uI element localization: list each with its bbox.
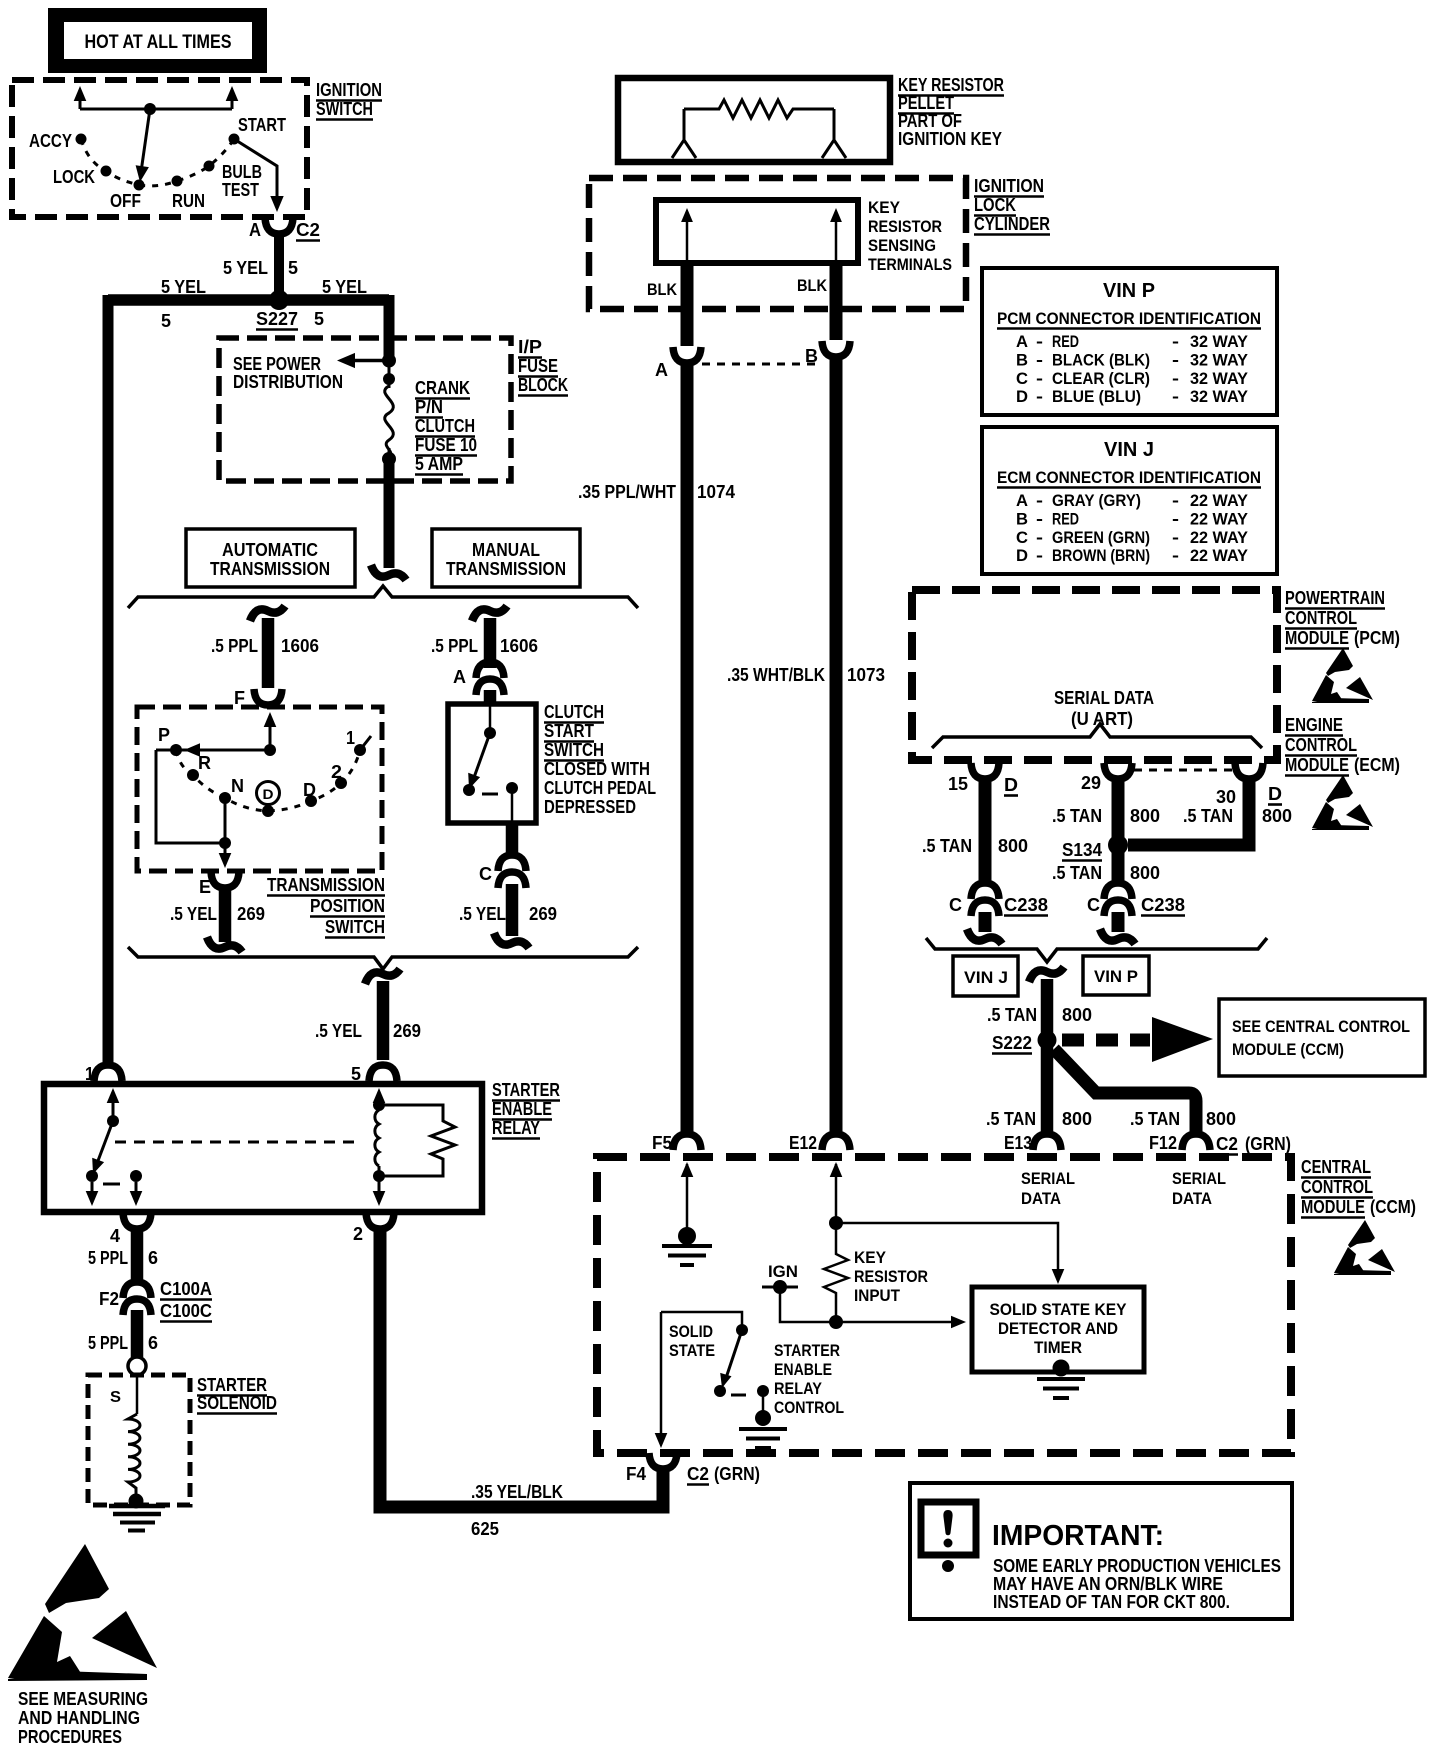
svg-text:6: 6 — [148, 1333, 158, 1353]
svg-text:DETECTOR AND: DETECTOR AND — [998, 1319, 1118, 1338]
svg-text:PELLET: PELLET — [898, 93, 954, 113]
ESD symbol ECM — [1312, 775, 1373, 830]
fuse CRANK P/N CLUTCH FUSE 10 5 AMP — [388, 360, 391, 388]
svg-text:STATE: STATE — [669, 1341, 715, 1360]
svg-text:F5: F5 — [652, 1133, 672, 1153]
E12 key resistor input — [830, 1162, 843, 1177]
wire .35 YEL/BLK 625 — [380, 1231, 663, 1507]
svg-text:29: 29 — [1081, 773, 1101, 793]
svg-text:.35 WHT/BLK: .35 WHT/BLK — [727, 665, 825, 685]
svg-text:PCM CONNECTOR IDENTIFICATION: PCM CONNECTOR IDENTIFICATION — [997, 309, 1261, 328]
svg-text:MANUAL: MANUAL — [472, 540, 540, 560]
svg-text:1073: 1073 — [847, 665, 885, 685]
powertrain control module box — [912, 590, 1277, 760]
svg-text:CENTRAL: CENTRAL — [1301, 1157, 1371, 1177]
svg-text:A: A — [655, 360, 668, 380]
svg-text:-: - — [1036, 369, 1043, 388]
svg-text:C: C — [1016, 369, 1028, 388]
switch ground — [762, 1391, 765, 1415]
ignition switch wiper node — [144, 103, 156, 115]
svg-text:-: - — [1172, 350, 1179, 369]
svg-text:5 PPL: 5 PPL — [88, 1333, 128, 1353]
svg-text:DATA: DATA — [1021, 1189, 1061, 1208]
svg-text:S134: S134 — [1062, 840, 1102, 860]
svg-text:F4: F4 — [626, 1464, 646, 1484]
svg-text:-: - — [1172, 387, 1179, 406]
wire .5 YEL 269 to relay pin 5 — [365, 969, 400, 984]
svg-text:POWERTRAIN: POWERTRAIN — [1285, 588, 1385, 608]
svg-text:S222: S222 — [992, 1033, 1032, 1053]
svg-text:C: C — [1016, 528, 1028, 547]
svg-text:SEE CENTRAL CONTROL: SEE CENTRAL CONTROL — [1232, 1017, 1410, 1036]
relay switch — [112, 1096, 115, 1121]
svg-text:SWITCH: SWITCH — [325, 917, 385, 937]
svg-text:E13: E13 — [1004, 1133, 1032, 1153]
svg-text:(GRN): (GRN) — [1245, 1134, 1291, 1154]
svg-text:B: B — [1016, 350, 1028, 369]
important note box — [910, 1483, 1292, 1619]
svg-text:22 WAY: 22 WAY — [1190, 509, 1249, 528]
svg-text:DATA: DATA — [1172, 1189, 1212, 1208]
F5 internal ground — [681, 1162, 694, 1177]
key resistor pellet box — [618, 78, 890, 162]
starter solenoid ground — [129, 1494, 144, 1509]
svg-text:269: 269 — [529, 904, 557, 924]
svg-text:ACCY: ACCY — [29, 131, 72, 151]
svg-text:KEY: KEY — [854, 1248, 887, 1267]
svg-text:BULB: BULB — [222, 162, 262, 182]
svg-text:PART OF: PART OF — [898, 111, 962, 131]
svg-text:D: D — [1016, 546, 1028, 565]
svg-text:C2: C2 — [687, 1464, 709, 1484]
svg-text:FUSE 10: FUSE 10 — [415, 435, 477, 455]
svg-text:POSITION: POSITION — [310, 896, 385, 916]
power feed box HOT AT ALL TIMES — [48, 8, 267, 73]
svg-text:269: 269 — [393, 1021, 421, 1041]
svg-text:.35 YEL/BLK: .35 YEL/BLK — [471, 1482, 563, 1502]
svg-text:P: P — [158, 725, 170, 745]
svg-text:GREEN (GRN): GREEN (GRN) — [1052, 528, 1150, 547]
svg-text:MODULE (CCM): MODULE (CCM) — [1232, 1040, 1344, 1059]
warning icon — [921, 1502, 976, 1555]
svg-text:PROCEDURES: PROCEDURES — [18, 1727, 122, 1744]
pin F entry arrow — [269, 716, 272, 750]
svg-text:AND HANDLING: AND HANDLING — [18, 1708, 140, 1728]
svg-text:D: D — [1016, 387, 1028, 406]
svg-text:22 WAY: 22 WAY — [1190, 491, 1249, 510]
svg-text:TRANSMISSION: TRANSMISSION — [267, 875, 385, 895]
svg-text:CLUTCH: CLUTCH — [415, 416, 475, 436]
key resistor sensing terminals box — [656, 200, 858, 263]
svg-text:.5 TAN: .5 TAN — [1183, 806, 1233, 826]
svg-text:I/P: I/P — [518, 337, 542, 357]
svg-text:A: A — [1016, 332, 1028, 351]
splice S134 — [1108, 835, 1128, 855]
svg-text:SERIAL: SERIAL — [1172, 1169, 1226, 1188]
svg-text:.5 TAN: .5 TAN — [1130, 1109, 1180, 1129]
svg-text:IGNITION: IGNITION — [974, 176, 1044, 196]
svg-text:15: 15 — [948, 774, 968, 794]
svg-text:.35 PPL/WHT: .35 PPL/WHT — [578, 482, 676, 502]
sensing terminal contacts — [686, 216, 689, 260]
svg-text:625: 625 — [471, 1519, 499, 1539]
central control module box — [597, 1157, 1291, 1453]
svg-text:.5 PPL: .5 PPL — [211, 636, 258, 656]
svg-text:IGN: IGN — [768, 1262, 798, 1281]
svg-text:VIN P: VIN P — [1094, 967, 1138, 986]
switch positions P R N D 2 1 — [170, 744, 182, 756]
wire START to connector C2 — [234, 139, 277, 200]
starter solenoid coil — [136, 1375, 139, 1414]
svg-text:C: C — [479, 864, 492, 884]
svg-text:800: 800 — [1130, 863, 1160, 883]
svg-text:-: - — [1036, 491, 1043, 510]
splice S227 bus wire — [108, 294, 389, 306]
svg-text:32 WAY: 32 WAY — [1190, 350, 1249, 369]
ignition switch box — [12, 80, 307, 217]
svg-text:ENABLE: ENABLE — [492, 1099, 552, 1119]
svg-text:1606: 1606 — [500, 636, 538, 656]
svg-text:800: 800 — [1130, 806, 1160, 826]
svg-text:RESISTOR: RESISTOR — [868, 217, 942, 236]
svg-text:5: 5 — [314, 309, 324, 329]
svg-text:INSTEAD OF TAN FOR CKT 800.: INSTEAD OF TAN FOR CKT 800. — [993, 1592, 1230, 1612]
VIN P table — [982, 268, 1277, 415]
wire 5 YEL from C2 — [274, 236, 284, 298]
svg-text:C: C — [1087, 895, 1100, 915]
svg-text:5 YEL: 5 YEL — [322, 277, 367, 297]
svg-text:SEE POWER: SEE POWER — [233, 354, 321, 374]
svg-text:CLEAR (CLR): CLEAR (CLR) — [1052, 369, 1150, 388]
svg-text:SWITCH: SWITCH — [544, 740, 604, 760]
svg-text:BLK: BLK — [797, 276, 828, 295]
svg-text:RED: RED — [1052, 509, 1079, 528]
wire .35 PPL/WHT 1074 — [681, 364, 694, 1134]
VIN J tag box — [953, 956, 1018, 996]
starter solenoid box — [88, 1375, 190, 1505]
svg-text:C238: C238 — [1141, 895, 1185, 915]
svg-text:CLUTCH: CLUTCH — [544, 702, 604, 722]
svg-text:ENABLE: ENABLE — [774, 1360, 832, 1379]
svg-text:800: 800 — [1062, 1109, 1092, 1129]
svg-text:.5 YEL: .5 YEL — [315, 1021, 362, 1041]
key resistor — [824, 1223, 848, 1320]
svg-text:D: D — [303, 780, 316, 800]
serial data brace — [932, 724, 1262, 748]
svg-text:BLACK (BLK): BLACK (BLK) — [1052, 350, 1150, 369]
ESD symbol PCM — [1312, 648, 1373, 703]
svg-text:SOLENOID: SOLENOID — [197, 1393, 277, 1413]
svg-text:SERIAL DATA: SERIAL DATA — [1054, 688, 1154, 708]
svg-text:ECM CONNECTOR IDENTIFICATION: ECM CONNECTOR IDENTIFICATION — [997, 468, 1261, 487]
svg-text:MODULE: MODULE — [1285, 628, 1349, 648]
wire .5 PPL 1606 automatic — [250, 606, 285, 621]
pin E connector — [211, 872, 239, 888]
svg-text:LOCK: LOCK — [974, 195, 1016, 215]
svg-text:MODULE: MODULE — [1285, 755, 1349, 775]
svg-text:AUTOMATIC: AUTOMATIC — [222, 540, 318, 560]
wire .5 TAN 800 pin 29 — [1112, 781, 1125, 840]
svg-text:GRAY (GRY): GRAY (GRY) — [1052, 491, 1141, 510]
svg-text:.5 TAN: .5 TAN — [987, 1005, 1037, 1025]
svg-text:(PCM): (PCM) — [1354, 628, 1400, 648]
circled D (drive) — [257, 782, 280, 805]
svg-text:-: - — [1036, 546, 1043, 565]
svg-text:F12: F12 — [1149, 1133, 1177, 1153]
svg-text:INPUT: INPUT — [854, 1286, 901, 1305]
svg-text:C100C: C100C — [160, 1301, 212, 1321]
wire .5 YEL 269 from E — [219, 889, 232, 942]
svg-text:5: 5 — [161, 311, 171, 331]
svg-text:(GRN): (GRN) — [714, 1464, 760, 1484]
starter enable relay box — [44, 1084, 482, 1212]
svg-text:A: A — [1016, 491, 1028, 510]
option label box MANUAL TRANSMISSION — [432, 529, 580, 587]
connector terminal B — [822, 341, 850, 357]
ignition switch feed wires — [79, 90, 82, 109]
svg-text:.5 TAN: .5 TAN — [986, 1109, 1036, 1129]
contact path to pin E — [156, 750, 225, 843]
svg-text:SWITCH: SWITCH — [316, 99, 373, 119]
svg-text:TRANSMISSION: TRANSMISSION — [210, 559, 330, 579]
svg-text:5: 5 — [288, 258, 298, 278]
svg-text:SOLID STATE KEY: SOLID STATE KEY — [990, 1300, 1128, 1319]
svg-text:C238: C238 — [1004, 895, 1048, 915]
CCM pin F4 C2 (GRN) — [649, 1453, 677, 1469]
svg-text:VIN J: VIN J — [1104, 439, 1154, 461]
svg-text:VIN J: VIN J — [964, 968, 1008, 987]
wire 5 PPL 6 — [131, 1231, 144, 1285]
svg-text:A: A — [453, 667, 466, 687]
svg-text:SENSING: SENSING — [868, 236, 936, 255]
svg-text:5 PPL: 5 PPL — [88, 1248, 128, 1268]
svg-text:TEST: TEST — [222, 180, 259, 200]
svg-text:-: - — [1172, 332, 1179, 351]
svg-text:.5 TAN: .5 TAN — [922, 836, 972, 856]
svg-text:LOCK: LOCK — [53, 167, 95, 187]
svg-text:800: 800 — [998, 836, 1028, 856]
svg-text:FUSE: FUSE — [518, 356, 558, 376]
VIN option brace — [926, 938, 1267, 962]
svg-text:2: 2 — [331, 762, 342, 782]
svg-text:32 WAY: 32 WAY — [1190, 387, 1249, 406]
svg-text:RELAY: RELAY — [774, 1379, 823, 1398]
svg-text:-: - — [1172, 546, 1179, 565]
svg-text:C100A: C100A — [160, 1279, 212, 1299]
svg-text:SEE MEASURING: SEE MEASURING — [18, 1689, 148, 1709]
svg-text:RELAY: RELAY — [492, 1118, 540, 1138]
ESD symbol CCM — [1334, 1220, 1395, 1275]
wire from fuse down — [384, 462, 395, 568]
connector terminal A — [673, 347, 701, 363]
node to power distribution — [382, 354, 396, 368]
svg-text:(ECM): (ECM) — [1354, 755, 1400, 775]
clutch switch contacts — [489, 706, 492, 733]
svg-text:CONTROL: CONTROL — [1301, 1177, 1373, 1197]
svg-text:32 WAY: 32 WAY — [1190, 332, 1249, 351]
svg-text:IGNITION KEY: IGNITION KEY — [898, 129, 1002, 149]
wire .5 TAN 800 below S134 — [1112, 850, 1125, 886]
connector C2 terminal A — [265, 218, 293, 234]
svg-text:2: 2 — [353, 1224, 363, 1244]
svg-text:S227: S227 — [256, 309, 298, 329]
svg-text:.5 PPL: .5 PPL — [431, 636, 478, 656]
relay coil — [373, 1099, 385, 1111]
svg-text:22 WAY: 22 WAY — [1190, 528, 1249, 547]
clutch start switch box — [448, 704, 536, 823]
svg-text:CRANK: CRANK — [415, 378, 470, 398]
svg-text:-: - — [1172, 528, 1179, 547]
svg-text:BLOCK: BLOCK — [518, 375, 568, 395]
svg-text:N: N — [231, 776, 244, 796]
svg-text:RED: RED — [1052, 332, 1079, 351]
wires BLK — [681, 263, 694, 346]
svg-text:-: - — [1036, 387, 1043, 406]
wiper arrow to P — [156, 749, 270, 752]
wire .5 PPL 1606 manual — [472, 606, 507, 621]
relay actuation dashed link — [115, 1141, 362, 1144]
svg-text:-: - — [1036, 509, 1043, 528]
svg-text:START: START — [544, 721, 594, 741]
svg-text:6: 6 — [148, 1248, 158, 1268]
svg-text:.5 TAN: .5 TAN — [1052, 806, 1102, 826]
svg-text:-: - — [1172, 491, 1179, 510]
svg-text:F2: F2 — [99, 1289, 119, 1309]
wire to F4 — [660, 1312, 663, 1438]
svg-text:1074: 1074 — [697, 482, 735, 502]
wire right branch into fuse block — [384, 295, 395, 358]
svg-text:800: 800 — [1206, 1109, 1236, 1129]
svg-text:5 YEL: 5 YEL — [223, 258, 268, 278]
svg-text:1606: 1606 — [281, 636, 319, 656]
svg-text:.5 TAN: .5 TAN — [1052, 863, 1102, 883]
svg-text:STARTER: STARTER — [774, 1341, 840, 1360]
svg-text:C2: C2 — [1216, 1134, 1238, 1154]
splice S222 — [1038, 1031, 1057, 1050]
I/P fuse block box — [219, 338, 511, 481]
VIN P tag box — [1083, 956, 1149, 995]
svg-text:4: 4 — [110, 1226, 120, 1246]
svg-text:(CCM): (CCM) — [1370, 1197, 1416, 1217]
svg-text:B: B — [1016, 509, 1028, 528]
option label box AUTOMATIC TRANSMISSION — [186, 529, 355, 587]
svg-text:SERIAL: SERIAL — [1021, 1169, 1075, 1188]
svg-text:BLK: BLK — [647, 280, 678, 299]
svg-text:D: D — [1268, 784, 1282, 804]
svg-text:HOT AT ALL TIMES: HOT AT ALL TIMES — [85, 32, 232, 53]
svg-text:800: 800 — [1062, 1005, 1092, 1025]
svg-text:-: - — [1036, 528, 1043, 547]
svg-text:.5 YEL: .5 YEL — [459, 904, 506, 924]
svg-text:STARTER: STARTER — [492, 1080, 560, 1100]
ignition lock cylinder box — [589, 178, 966, 309]
svg-text:TIMER: TIMER — [1034, 1338, 1082, 1357]
svg-text:R: R — [198, 753, 211, 773]
svg-text:BROWN (BRN): BROWN (BRN) — [1052, 546, 1150, 565]
svg-text:TRANSMISSION: TRANSMISSION — [446, 559, 566, 579]
svg-text:30: 30 — [1216, 787, 1236, 807]
svg-text:800: 800 — [1262, 806, 1292, 826]
wire .5 TAN 800 to S222 — [1029, 967, 1064, 982]
wire .5 TAN 800 to E13 — [1041, 1040, 1054, 1134]
svg-text:SOME EARLY PRODUCTION VEHICLES: SOME EARLY PRODUCTION VEHICLES — [993, 1556, 1281, 1576]
svg-text:CONTROL: CONTROL — [1285, 608, 1357, 628]
svg-text:IGNITION: IGNITION — [316, 80, 382, 100]
svg-text:CONTROL: CONTROL — [774, 1398, 844, 1417]
svg-text:C2: C2 — [296, 220, 320, 240]
svg-text:STARTER: STARTER — [197, 1375, 267, 1395]
wire .35 WHT/BLK 1073 — [830, 358, 843, 1134]
svg-text:32 WAY: 32 WAY — [1190, 369, 1249, 388]
svg-text:VIN P: VIN P — [1103, 280, 1155, 302]
svg-text:-: - — [1172, 509, 1179, 528]
svg-text:5 AMP: 5 AMP — [415, 454, 463, 474]
svg-text:CONTROL: CONTROL — [1285, 735, 1357, 755]
svg-text:E12: E12 — [789, 1133, 817, 1153]
option split brace top — [128, 586, 638, 608]
svg-text:MAY HAVE AN ORN/BLK WIRE: MAY HAVE AN ORN/BLK WIRE — [993, 1574, 1223, 1594]
detector ground — [1053, 1360, 1070, 1377]
key pellet resistor element — [684, 100, 834, 118]
svg-text:START: START — [238, 115, 286, 135]
svg-text:ENGINE: ENGINE — [1285, 715, 1343, 735]
svg-text:D: D — [263, 786, 274, 802]
svg-text:KEY RESISTOR: KEY RESISTOR — [898, 75, 1004, 95]
ESD handling symbol — [45, 1544, 109, 1613]
svg-text:.5 YEL: .5 YEL — [170, 904, 217, 924]
ignition switch positions — [76, 134, 87, 145]
starter solenoid ring terminal — [128, 1357, 146, 1375]
key pellet terminals — [672, 109, 696, 158]
svg-text:C: C — [949, 895, 962, 915]
wire .5 TAN 800 to F12 — [1054, 1049, 1196, 1134]
svg-text:D: D — [1004, 775, 1018, 795]
svg-text:A: A — [249, 220, 261, 240]
wire left branch to starter enable relay pin 1 — [103, 295, 114, 1062]
svg-text:TERMINALS: TERMINALS — [868, 255, 952, 274]
svg-text:SOLID: SOLID — [669, 1322, 713, 1341]
svg-text:5 YEL: 5 YEL — [161, 277, 206, 297]
wire to connector C — [506, 823, 519, 858]
svg-text:E: E — [199, 877, 211, 897]
svg-text:KEY: KEY — [868, 198, 901, 217]
wire .5 TAN 800 pin 15 — [979, 781, 992, 886]
svg-text:269: 269 — [237, 904, 265, 924]
svg-text:-: - — [1172, 369, 1179, 388]
svg-text:P/N: P/N — [415, 397, 443, 417]
svg-text:1: 1 — [346, 728, 355, 748]
svg-text:IMPORTANT:: IMPORTANT: — [992, 1520, 1164, 1552]
option merge brace bottom — [128, 947, 638, 969]
relay coil suppression resistor — [379, 1105, 455, 1176]
svg-text:-: - — [1036, 332, 1043, 351]
solid state key detector and timer box — [972, 1287, 1144, 1372]
svg-text:CLOSED WITH: CLOSED WITH — [544, 759, 650, 779]
svg-text:DISTRIBUTION: DISTRIBUTION — [233, 372, 343, 392]
svg-text:BLUE (BLU): BLUE (BLU) — [1052, 387, 1141, 406]
svg-text:OFF: OFF — [110, 191, 141, 211]
svg-text:MODULE: MODULE — [1301, 1197, 1365, 1217]
VIN J table — [982, 427, 1277, 574]
svg-text:RESISTOR: RESISTOR — [854, 1267, 928, 1286]
svg-text:CYLINDER: CYLINDER — [974, 214, 1050, 234]
note box SEE CENTRAL CONTROL MODULE (CCM) — [1219, 999, 1425, 1076]
dashed branch to CCM note — [1062, 1034, 1150, 1047]
svg-text:S: S — [110, 1389, 121, 1406]
svg-text:-: - — [1036, 350, 1043, 369]
svg-text:22 WAY: 22 WAY — [1190, 546, 1249, 565]
svg-text:CLUTCH PEDAL: CLUTCH PEDAL — [544, 778, 656, 798]
